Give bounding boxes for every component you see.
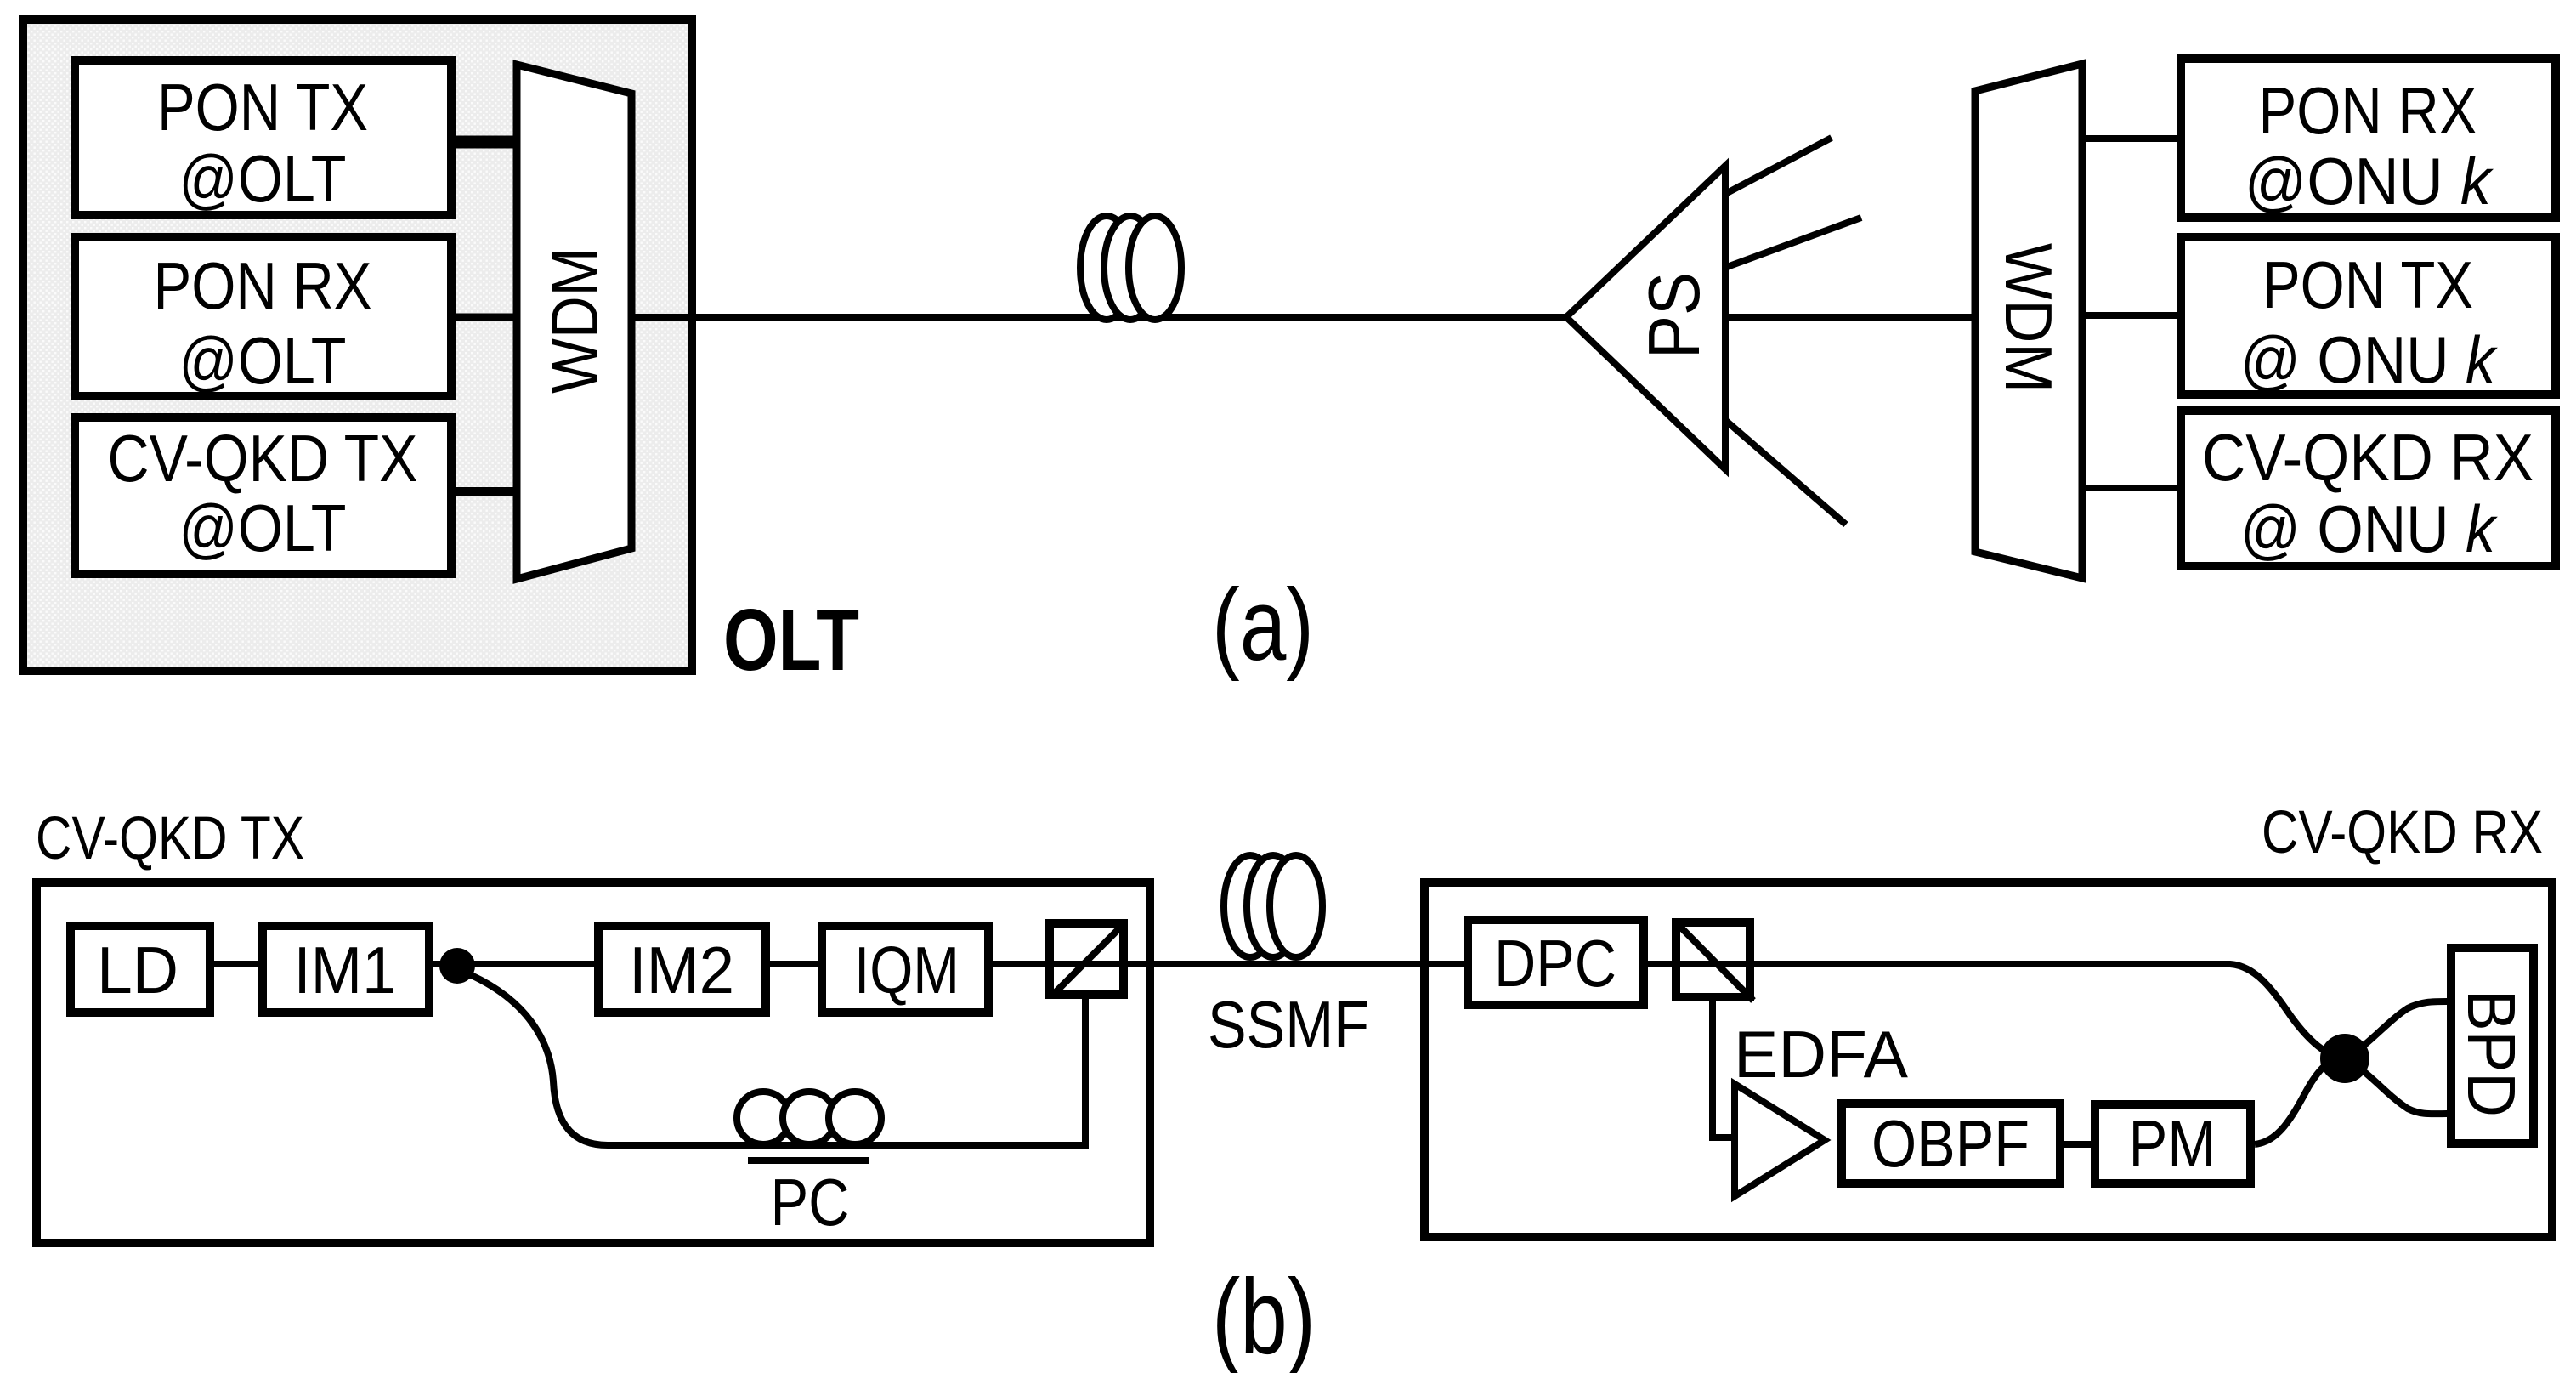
svg-text:DPC: DPC [1494,926,1616,1001]
svg-text:@OLT: @OLT [179,491,347,565]
svg-text:BPD: BPD [2454,990,2529,1117]
svg-text:CV-QKD RX: CV-QKD RX [2262,799,2543,866]
svg-text:(a): (a) [1212,568,1314,682]
svg-text:@OLT: @OLT [179,141,347,216]
svg-text:@OLT: @OLT [179,323,347,398]
svg-text:@ONU k: @ONU k [2245,144,2494,218]
svg-text:SSMF: SSMF [1208,987,1369,1062]
svg-text:PON RX: PON RX [154,248,372,323]
svg-text:CV-QKD RX: CV-QKD RX [2202,420,2534,495]
svg-text:PON RX: PON RX [2259,73,2477,148]
svg-text:CV-QKD TX: CV-QKD TX [108,421,418,496]
svg-text:WDM: WDM [537,247,612,394]
svg-text:PC: PC [771,1165,850,1240]
svg-text:IM2: IM2 [629,933,734,1007]
svg-text:@ ONU k: @ ONU k [2240,491,2499,566]
svg-text:LD: LD [97,933,178,1007]
svg-text:EDFA: EDFA [1734,1017,1908,1092]
svg-text:OBPF: OBPF [1871,1106,2030,1181]
svg-text:@ ONU k: @ ONU k [2240,322,2499,397]
svg-text:CV-QKD TX: CV-QKD TX [36,805,304,872]
svg-text:WDM: WDM [1991,243,2066,393]
svg-text:PM: PM [2129,1106,2216,1181]
svg-text:IQM: IQM [854,933,960,1007]
svg-text:(b): (b) [1212,1258,1316,1373]
svg-text:PON TX: PON TX [157,70,368,145]
svg-text:OLT: OLT [723,591,859,689]
svg-text:PS: PS [1634,272,1715,359]
svg-text:PON TX: PON TX [2262,247,2473,322]
svg-text:IM1: IM1 [294,933,397,1007]
